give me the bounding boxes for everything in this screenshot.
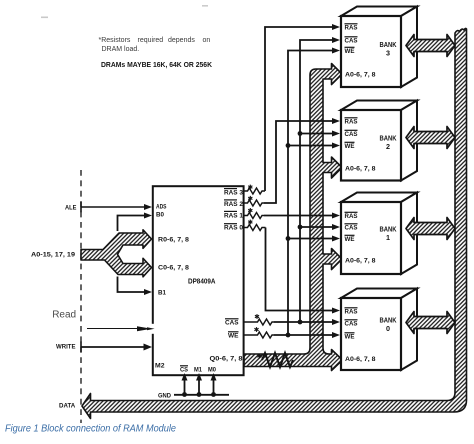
node GND-M0 (211, 392, 216, 397)
memory bank 2 box (341, 101, 417, 181)
wire WE vertical to banks 1,2,3 (288, 51, 333, 336)
svg-text:RAS 0: RAS 0 (224, 225, 243, 232)
svg-text:A0-6, 7, 8: A0-6, 7, 8 (345, 356, 376, 363)
svg-text:WE: WE (345, 143, 355, 150)
node GND-M1 (197, 392, 202, 397)
wire WE branch bank 2 (288, 145, 333, 147)
bidirectional data arrow bank 3 (406, 35, 455, 57)
svg-text:DRAMs MAYBE 16K, 64K OR 256K: DRAMs MAYBE 16K, 64K OR 256K (101, 62, 212, 69)
svg-text:ALE: ALE (65, 204, 77, 211)
scan speck top-middle (202, 5, 208, 7)
scan speck top-right (405, 25, 412, 27)
svg-text:RAS 3: RAS 3 (224, 190, 243, 197)
pin label RAS0 with overbar (224, 224, 243, 232)
wire GND to M1 (198, 379, 200, 395)
wire B0 input (118, 216, 147, 232)
wire GND to CS (184, 379, 186, 395)
pin label RAS1 with overbar (224, 211, 243, 219)
svg-text:WE: WE (345, 236, 355, 243)
pin label RAS3 with overbar (224, 189, 243, 197)
resistor R2 on RAS2 (244, 196, 264, 206)
dashed system boundary line (80, 170, 82, 423)
wire RAS1 to bank 1 (264, 215, 333, 217)
node GND-CS (182, 392, 187, 397)
wire RAS0 to bank 0 (266, 228, 334, 311)
svg-text:2: 2 (386, 142, 390, 151)
svg-text:RAS 1: RAS 1 (224, 212, 243, 219)
bus DATA with right vertical branch (82, 28, 467, 418)
bidirectional data arrow bank 1 (406, 218, 455, 240)
svg-text:DATA: DATA (59, 402, 75, 409)
wire CAS vertical to banks 1,2,3 (300, 40, 333, 322)
svg-text:CAS: CAS (345, 225, 358, 232)
pin label CS with overbar (180, 366, 188, 374)
svg-text:1: 1 (386, 233, 390, 242)
bus A0-15,17,19 fork to R0/C0 (81, 230, 152, 277)
svg-text:CAS: CAS (345, 321, 358, 328)
wire B1 input (118, 277, 147, 293)
resistor R6 on WE (244, 327, 274, 338)
svg-text:RAS: RAS (345, 25, 358, 32)
wire RAS2 to bank 2 (264, 121, 333, 203)
resistor R1 on RAS3 (244, 185, 265, 194)
node WE junction bank0 (286, 333, 291, 338)
IC U1 DP8409A body (153, 186, 244, 375)
svg-text:RAS: RAS (345, 119, 358, 126)
svg-text:M0: M0 (208, 367, 216, 374)
svg-text:A0-6, 7, 8: A0-6, 7, 8 (345, 166, 376, 173)
svg-text:3: 3 (386, 49, 390, 58)
resistor R4 on RAS0 (244, 220, 266, 231)
node CAS junction bank0 (298, 320, 303, 325)
svg-text:CS: CS (180, 367, 188, 374)
note text resistors required (99, 37, 211, 53)
pin label WE with overbar (228, 332, 239, 340)
wire CAS to bank 0 (274, 321, 333, 323)
svg-text:B1: B1 (158, 290, 166, 297)
wire WE to bank 0 (274, 334, 333, 336)
memory bank 0 box (341, 289, 417, 371)
resistor R5 on CAS (244, 314, 274, 325)
svg-text:RAS: RAS (345, 213, 358, 220)
wire GND to M0 (213, 379, 215, 395)
svg-text:WE: WE (228, 333, 239, 340)
wire WRITE input (81, 342, 152, 353)
pin label RAS2 with overbar (224, 200, 243, 208)
node WE junction bank1 (286, 236, 291, 241)
resistor network R7 on Q0 bus (257, 353, 293, 367)
svg-text:RAS: RAS (345, 309, 358, 316)
svg-text:Q0-6, 7, 8: Q0-6, 7, 8 (210, 356, 243, 363)
svg-text:Figure 1 Block connection of R: Figure 1 Block connection of RAM Module (5, 424, 176, 435)
svg-text:A0-15, 17, 19: A0-15, 17, 19 (31, 252, 75, 259)
svg-text:DP8409A: DP8409A (188, 277, 216, 286)
svg-text:*Resistorsrequireddependson: *Resistorsrequireddependson (99, 37, 211, 44)
resistor R3 on RAS1 (244, 208, 264, 219)
svg-text:WE: WE (345, 48, 355, 55)
svg-text:CAS: CAS (345, 38, 358, 45)
node CAS junction bank1 (298, 225, 303, 230)
memory bank 3 box (341, 7, 417, 88)
svg-text:B0: B0 (156, 212, 164, 219)
bus Q0/A0 address to banks (244, 64, 343, 371)
svg-text:M2: M2 (155, 363, 165, 370)
wire RAS3 to bank 3 (265, 27, 333, 191)
wire CAS branch bank 2 (300, 133, 333, 135)
wire WE branch bank 1 (288, 238, 333, 240)
wire Read arrow (87, 324, 155, 334)
node CAS junction bank2 (298, 131, 303, 136)
svg-text:0: 0 (386, 324, 390, 333)
svg-text:RAS 2: RAS 2 (224, 201, 243, 208)
svg-text:WE: WE (345, 334, 355, 341)
svg-text:WRITE: WRITE (56, 344, 76, 351)
svg-text:Read: Read (52, 310, 76, 321)
wire ALE input (81, 202, 152, 213)
svg-text:A0-6, 7, 8: A0-6, 7, 8 (345, 72, 376, 79)
pin label CAS with overbar (225, 319, 239, 327)
memory bank 1 box (341, 193, 417, 275)
scan speck top-left (41, 17, 48, 19)
svg-text:A0-6, 7, 8: A0-6, 7, 8 (345, 258, 376, 265)
svg-text:DRAM load.: DRAM load. (102, 46, 140, 53)
svg-text:R0-6, 7, 8: R0-6, 7, 8 (158, 237, 189, 244)
bidirectional data arrow bank 2 (406, 127, 455, 149)
svg-text:GND: GND (158, 393, 171, 400)
svg-text:M1: M1 (194, 367, 202, 374)
ground GND rail (158, 393, 229, 400)
svg-text:CAS: CAS (345, 131, 358, 138)
wire CAS branch bank 1 (300, 226, 333, 228)
svg-text:CAS: CAS (225, 320, 239, 327)
bidirectional data arrow bank 0 (406, 312, 455, 334)
svg-text:C0-6, 7, 8: C0-6, 7, 8 (158, 265, 189, 272)
node WE junction bank2 (286, 143, 291, 148)
svg-text:ADS: ADS (156, 204, 167, 211)
